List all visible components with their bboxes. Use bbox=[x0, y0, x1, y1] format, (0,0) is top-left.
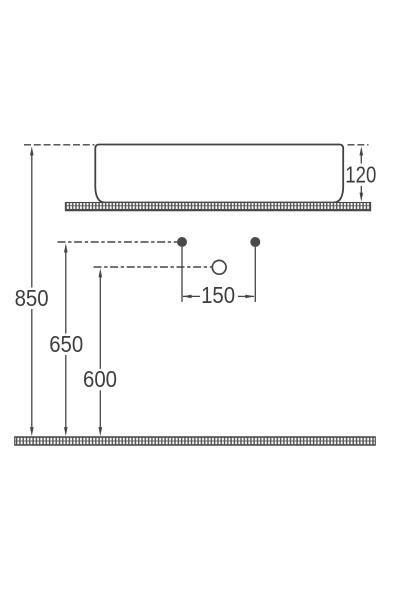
dimension 150 bbox=[182, 282, 254, 308]
svg-text:600: 600 bbox=[83, 366, 117, 392]
basin outline bbox=[95, 145, 343, 203]
dimension 600 line bbox=[82, 268, 120, 436]
dashed line to faucet dot 1 bbox=[58, 241, 178, 243]
dashed extension line (basin top, left) bbox=[24, 144, 95, 146]
svg-text:850: 850 bbox=[15, 285, 49, 311]
dimension 850 line bbox=[13, 146, 51, 436]
faucet hole dot 2 bbox=[250, 237, 260, 247]
svg-text:650: 650 bbox=[49, 331, 83, 357]
counter hatched band bbox=[65, 203, 370, 211]
dimension 120 bbox=[345, 146, 376, 202]
extension line from dot 2 bbox=[254, 247, 256, 302]
dashed extension line (basin top, right) bbox=[348, 144, 369, 146]
floor hatched band bbox=[15, 437, 376, 445]
spout hole (open circle) bbox=[212, 260, 226, 274]
svg-text:150: 150 bbox=[201, 282, 235, 308]
faucet hole dot 1 bbox=[177, 237, 187, 247]
dashed line to spout circle bbox=[94, 266, 212, 268]
extension line from dot 1 bbox=[181, 247, 183, 302]
svg-text:120: 120 bbox=[345, 162, 376, 188]
dimension 650 line bbox=[48, 243, 86, 436]
